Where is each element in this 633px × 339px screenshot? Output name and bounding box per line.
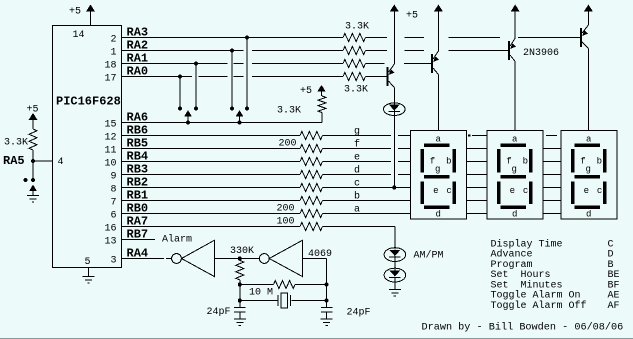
svg-text:e: e [510, 186, 515, 196]
display DS1 segment b bar [452, 149, 456, 172]
display DS3 segment d bar [575, 205, 600, 209]
ground below C2 [321, 318, 333, 320]
wire segment c row to display [323, 187, 411, 189]
wire RB segment c row left [122, 187, 301, 189]
svg-text:15: 15 [104, 120, 116, 131]
wire RA0 row [122, 76, 344, 78]
svg-text:8: 8 [110, 185, 116, 196]
wire crystal row right [291, 300, 326, 302]
node RA1 / S2 junction [194, 62, 198, 66]
ground below C1 [234, 318, 246, 320]
wire RB7 stub [122, 239, 156, 241]
svg-text:e: e [354, 153, 360, 164]
resistor 3.3K on RA0 [343, 73, 366, 81]
display DS1 segment f bar [420, 149, 424, 172]
svg-text:17: 17 [104, 74, 116, 85]
wire RB segment e row left [122, 161, 301, 163]
wire RA3 resistor to Q4 base [366, 37, 581, 39]
wire RB segment g row left [122, 135, 301, 137]
LED D3 AM/PM [384, 268, 406, 282]
transistor Q3 collector [510, 55, 515, 131]
power +5 arrow (Q4) [584, 5, 593, 12]
display DS3 segment f bar [571, 149, 575, 172]
display DS3 segment b bar [603, 149, 607, 172]
display DS3 segment g bar [575, 175, 600, 179]
wire RA6 row [122, 122, 323, 124]
svg-text:d: d [586, 209, 591, 219]
svg-text:200: 200 [279, 139, 297, 150]
ground below S5 [27, 195, 39, 197]
bottom border line [0, 338, 633, 339]
node 10M right junction [325, 283, 329, 287]
svg-text:d: d [354, 165, 360, 177]
resistor 3.3K on RA1 [343, 60, 366, 68]
svg-text:Display Time: Display Time [491, 238, 563, 250]
display DS3 segment a bar [575, 143, 600, 147]
display DS1 body [411, 131, 467, 220]
svg-text:Set Minutes: Set Minutes [491, 279, 563, 291]
svg-text:7: 7 [110, 198, 116, 209]
svg-text:Toggle Alarm On: Toggle Alarm On [491, 290, 581, 302]
wire RA1 resistor to Q2 base [366, 63, 432, 65]
wire S4 contact drop (RA3) [246, 38, 248, 109]
svg-text:2N3906: 2N3906 [523, 48, 559, 59]
svg-text:e: e [433, 186, 438, 196]
wire crystal row left [240, 300, 278, 302]
transistor Q3 emitter [510, 11, 516, 49]
wire S2 contact drop (RA1) [195, 64, 197, 109]
svg-text:b: b [597, 157, 602, 167]
svg-text:b: b [446, 157, 451, 167]
display DS3 body [561, 131, 617, 220]
wire segment g row to display (hop at D1 drop) [323, 135, 411, 137]
svg-text:330K: 330K [230, 246, 254, 257]
display DS3 segment e bar [571, 182, 575, 205]
svg-text:3.3K: 3.3K [345, 22, 369, 33]
svg-text:3.3K: 3.3K [344, 85, 368, 96]
power +5 arrow (Q3) [511, 5, 520, 12]
ground below AM/PM LEDs [389, 289, 401, 291]
LED D1 colon indicator [384, 103, 406, 116]
svg-text:10 M: 10 M [249, 288, 273, 299]
svg-text:g: g [511, 165, 516, 175]
svg-text:9: 9 [110, 172, 116, 183]
svg-text:+5: +5 [300, 86, 312, 97]
display DS1 segment d bar [424, 205, 449, 209]
display DS1 segment e bar [420, 182, 424, 205]
svg-text:d: d [435, 209, 440, 219]
node switch contact left [24, 178, 28, 182]
resistor segment d [300, 171, 323, 179]
wire RB segment f row left [122, 148, 301, 150]
node RA5 junction [31, 159, 35, 163]
svg-text:3.3K: 3.3K [4, 138, 28, 149]
power +5 arrow (Q2) [434, 5, 443, 12]
svg-text:c: c [597, 186, 602, 196]
svg-text:4: 4 [58, 157, 64, 168]
svg-text:14: 14 [72, 30, 84, 41]
inverter U2B output bubble [259, 254, 269, 264]
resistor 3.3K RA6 pull-up [318, 96, 326, 113]
svg-text:Advance: Advance [491, 249, 533, 261]
power +5 arrow (Q1) [390, 5, 399, 12]
wire RB segment b row left [122, 200, 301, 202]
power +5 arrow (RA6 pull-up) [317, 85, 325, 96]
transistor Q4 2N3906 base bar [580, 28, 582, 47]
display DS2 segment e bar [497, 182, 501, 205]
transistor Q1 emitter [389, 11, 395, 75]
display DS2 segment d bar [501, 205, 526, 209]
inverter U2A output bubble [172, 254, 182, 264]
svg-text:+5: +5 [406, 11, 418, 22]
svg-text:d: d [512, 209, 517, 219]
svg-text:a: a [586, 134, 592, 144]
svg-text:6: 6 [110, 211, 116, 222]
node D1 to segment-c row [392, 186, 396, 190]
wire RA7 to AM/PM LEDs [323, 227, 395, 250]
node S1 contact [178, 107, 182, 111]
display DS2 segment c bar [529, 182, 533, 205]
wire RB segment d row left [122, 174, 301, 176]
transistor Q4 collector [582, 42, 588, 131]
resistor segment a [300, 210, 323, 218]
display DS2 body [487, 131, 543, 220]
svg-text:PIC16F628: PIC16F628 [56, 95, 121, 109]
svg-text:1: 1 [110, 48, 116, 59]
node S1/S2 on RA6 [186, 121, 190, 125]
wire 10M row right [295, 284, 327, 286]
wire segment e row to display (hop at D1 drop) [323, 161, 411, 163]
resistor segment e [300, 158, 323, 166]
wire RA4 to inverter output [122, 258, 172, 260]
transistor Q3 2N3906 base bar [508, 41, 510, 60]
ground at pin 5 [83, 268, 95, 284]
wire D3 to ground [394, 277, 396, 289]
resistor segment g [300, 132, 323, 140]
node S3/S4 on RA6 [238, 121, 242, 125]
inverter U2B triangle [269, 240, 302, 276]
wire segment f row to display (hop at D1 drop) [323, 148, 411, 150]
pushbutton S5 actuator arrow [29, 185, 37, 196]
svg-text:c: c [446, 186, 451, 196]
wire RA2 resistor to Q3 base [366, 50, 509, 52]
resistor 100 on RA7 [300, 223, 323, 231]
svg-text:b: b [523, 157, 528, 167]
resistor 3.3K RA5 pull-up [29, 129, 37, 150]
svg-text:Toggle Alarm Off: Toggle Alarm Off [491, 300, 587, 312]
wire RA2 row [122, 50, 344, 52]
resistor segment b [300, 197, 323, 205]
wire RA3 row [122, 37, 344, 39]
resistor 330K [236, 260, 244, 280]
transistor Q1 2N3906 base bar [387, 67, 389, 86]
resistor 3.3K on RA2 [343, 47, 366, 55]
wire RA6 pull-up vertical [321, 113, 323, 123]
svg-text:Alarm: Alarm [162, 234, 192, 246]
capacitor C2 24pF [321, 308, 333, 319]
node crystal right junction [325, 299, 329, 303]
wire segment g dash DS1-DS2 [468, 135, 487, 137]
wire segment b row to display [323, 200, 411, 202]
svg-text:a: a [512, 134, 518, 144]
resistor segment f [300, 145, 323, 153]
svg-text:24pF: 24pF [207, 307, 231, 318]
wire U2B input [303, 259, 327, 308]
svg-text:5: 5 [84, 257, 90, 268]
transistor Q2 2N3906 base bar [431, 54, 433, 73]
transistor Q2 emitter [433, 11, 439, 62]
wire RA5 to pin 4 [33, 160, 53, 162]
node S4 contact [245, 107, 249, 111]
svg-text:e: e [584, 186, 589, 196]
svg-text:AM/PM: AM/PM [414, 250, 444, 262]
wire between D2 and D3 [394, 256, 396, 271]
svg-text:a: a [354, 205, 360, 216]
svg-text:18: 18 [104, 61, 116, 72]
resistor segment c [300, 184, 323, 192]
resistor 10M [274, 281, 296, 289]
wire S1 contact drop (RA0) [179, 77, 181, 109]
node S2 contact [194, 107, 198, 111]
svg-text:+5: +5 [69, 7, 81, 18]
svg-text:3.3K: 3.3K [277, 106, 301, 117]
svg-text:g: g [585, 165, 590, 175]
display DS3 segment c bar [603, 182, 607, 205]
node S3 contact [230, 107, 234, 111]
wire RB segment a row left [122, 213, 301, 215]
LED D2 AM/PM [384, 248, 406, 262]
svg-text:RA5: RA5 [3, 154, 25, 168]
svg-text:11: 11 [104, 146, 116, 157]
wire S3 contact drop (RA2) [231, 51, 233, 109]
wire segment a row to display [323, 213, 411, 215]
wire RA5 vertical [32, 150, 34, 180]
node RA2 / S3 junction [230, 49, 234, 53]
wire bus rungs DS2-DS3 [543, 149, 561, 214]
display DS1 segment c bar [452, 182, 456, 205]
display DS2 segment f bar [497, 149, 501, 172]
transistor Q2 collector [433, 68, 438, 131]
crystal Y1 [278, 293, 290, 308]
node 330K top junction [238, 257, 242, 261]
wire RA7 row [122, 226, 301, 228]
svg-text:100: 100 [277, 217, 295, 228]
node switch contact right [31, 178, 35, 182]
svg-text:2: 2 [110, 35, 116, 46]
transistor Q4 emitter [582, 11, 588, 36]
inverter U2A triangle [182, 240, 215, 276]
wire U2A input to U2B output [215, 258, 260, 260]
capacitor C1 24pF [234, 301, 246, 319]
transistor Q1 collector [389, 81, 395, 188]
svg-text:3: 3 [110, 256, 116, 267]
svg-text:g: g [435, 165, 440, 175]
display DS1 segment a bar [424, 143, 449, 147]
wire 10M row left [240, 284, 274, 286]
wire RA1 row [122, 63, 344, 65]
svg-text:g: g [354, 127, 360, 138]
svg-text:AF: AF [608, 301, 620, 312]
display DS2 segment b bar [529, 149, 533, 172]
wire 330K to 10M row [239, 280, 241, 301]
node crystal left junction [238, 299, 242, 303]
display DS2 segment g bar [501, 175, 526, 179]
node RA0 / S1 junction [178, 75, 182, 79]
wire RA0 resistor to Q1 base [366, 76, 387, 78]
svg-text:c: c [354, 179, 360, 190]
svg-text:13: 13 [104, 237, 116, 248]
svg-text:24pF: 24pF [347, 308, 371, 319]
power +5 arrow (RA5 pull-up) [29, 113, 38, 129]
resistor 3.3K on RA3 [343, 34, 366, 42]
node RA3 / S4 junction [245, 36, 249, 40]
svg-text:c: c [523, 186, 528, 196]
svg-text:Drawn by - Bill Bowden - 06/08: Drawn by - Bill Bowden - 06/08/06 [422, 322, 624, 334]
svg-text:b: b [354, 191, 360, 203]
svg-text:16: 16 [104, 224, 116, 235]
power +5 arrow at pin 14 [86, 5, 95, 26]
svg-text:f: f [354, 139, 360, 151]
svg-text:200: 200 [277, 204, 295, 215]
pushbutton S3/S4 actuator arrow [236, 110, 244, 123]
display DS1 segment g bar [424, 175, 449, 179]
pushbutton S1/S2 actuator arrow [184, 110, 192, 123]
wire segment d row to display (hop at D1 drop) [323, 174, 411, 176]
node 10M left junction [238, 283, 242, 287]
svg-text:12: 12 [104, 133, 116, 144]
IC U1 PIC16F628 body [53, 26, 122, 268]
svg-text:10: 10 [104, 159, 116, 170]
display DS2 segment a bar [501, 143, 526, 147]
wire bus rungs DS1-DS2 [467, 149, 487, 214]
wire segment g dash DS2-DS3 [546, 135, 557, 137]
svg-text:a: a [435, 134, 441, 144]
